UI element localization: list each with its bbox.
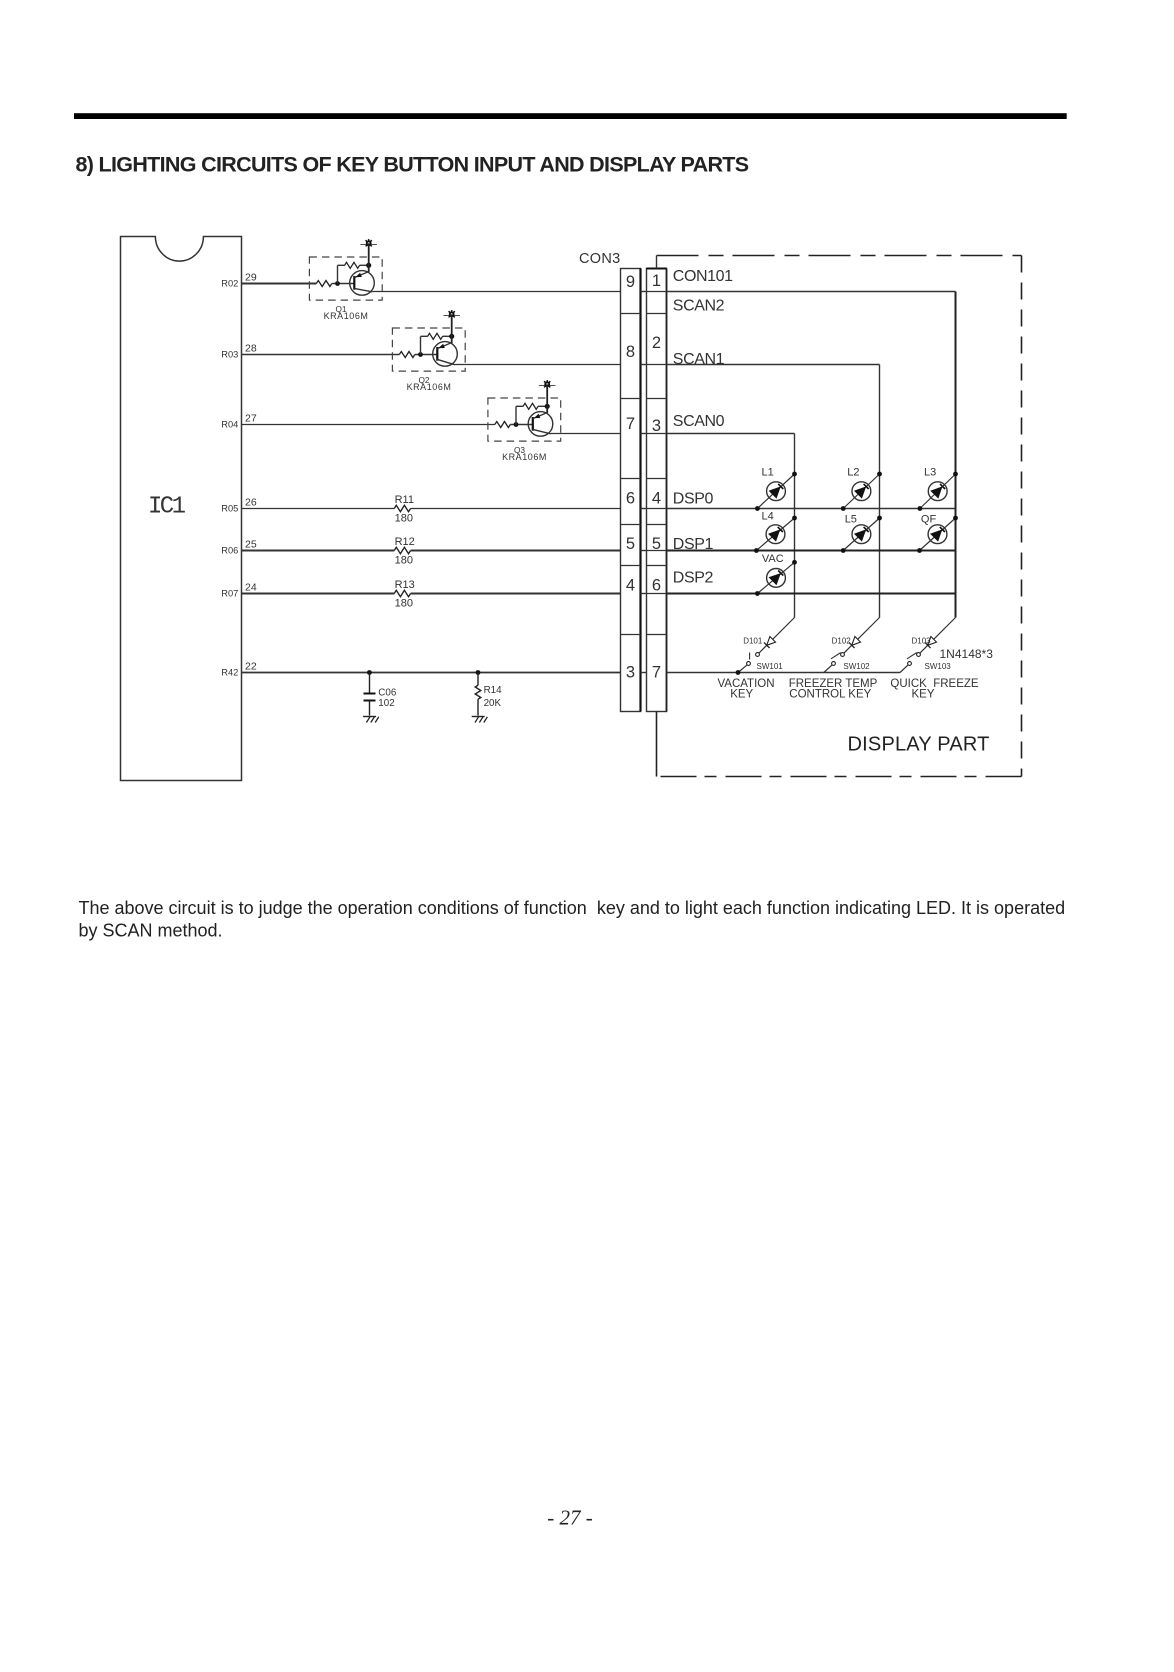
svg-text:R07: R07 (221, 589, 238, 599)
svg-text:SCAN1: SCAN1 (673, 351, 725, 368)
label SW101 (757, 662, 784, 671)
svg-text:R11: R11 (395, 494, 414, 506)
wire power to emitter (Q3) (546, 384, 548, 413)
label D102 (832, 637, 852, 646)
svg-text:6: 6 (626, 490, 635, 508)
page number (547, 1506, 593, 1530)
pin number 22 (245, 661, 257, 673)
display part border top (657, 255, 1022, 257)
svg-text:27: 27 (245, 413, 257, 425)
svg-text:CONTROL KEY: CONTROL KEY (789, 689, 871, 701)
pin number 25 (245, 539, 257, 551)
resistor R13 (394, 590, 410, 596)
label D101 (743, 637, 763, 646)
label 20K (R14) (484, 698, 502, 709)
svg-text:3: 3 (626, 664, 635, 682)
svg-text:R06: R06 (221, 546, 238, 556)
svg-text:SCAN2: SCAN2 (673, 298, 725, 315)
svg-text:DSP0: DSP0 (673, 491, 714, 508)
label L5 (845, 514, 857, 526)
net label SCAN0 (673, 413, 725, 430)
label VAC (762, 553, 784, 565)
wire SCAN2 vertical (v3) (955, 292, 957, 618)
wire base node (Q2) (415, 352, 438, 357)
wire SCAN2 horizontal (667, 291, 956, 293)
transistor Q1 (KRA106M) (350, 271, 375, 296)
wire key-scan row (pin7) (667, 672, 901, 674)
connector through-stubs (641, 292, 647, 673)
wire power to emitter (Q2) (451, 314, 453, 343)
display part border right (1021, 256, 1023, 777)
svg-text:KRA106M: KRA106M (407, 382, 452, 392)
top rule bar (74, 113, 1067, 119)
svg-text:R03: R03 (221, 350, 238, 360)
wire to power node (Q1) (360, 263, 372, 268)
svg-text:L2: L2 (847, 467, 859, 479)
svg-text:26: 26 (245, 497, 257, 509)
transistor Q2 (KRA106M) (433, 342, 458, 367)
label C06 (378, 687, 397, 698)
IC pin label R05 (221, 504, 238, 514)
svg-text:KEY: KEY (730, 689, 753, 701)
transistor Q3 (KRA106M) (528, 412, 553, 437)
svg-text:R02: R02 (221, 279, 238, 289)
svg-text:R05: R05 (221, 504, 238, 514)
label L4 (762, 511, 774, 523)
pin number 29 (245, 272, 257, 284)
svg-text:L1: L1 (762, 467, 774, 479)
net label CON101 (673, 268, 733, 285)
svg-text:28: 28 (245, 343, 257, 355)
label Q1 (335, 304, 346, 314)
net label SCAN1 (673, 351, 725, 368)
label 180 (R12) (395, 554, 413, 566)
svg-text:L3: L3 (924, 467, 936, 479)
diode D101 + switch SW101 (736, 618, 795, 675)
svg-text:R42: R42 (221, 668, 238, 678)
label QUICK FREEZE KEY (890, 678, 979, 701)
wire Q2 collector to CON3 (455, 364, 620, 366)
svg-text:CON101: CON101 (673, 268, 733, 285)
svg-text:KRA106M: KRA106M (502, 452, 547, 462)
LED QF (917, 516, 958, 553)
wire R06 row (242, 550, 621, 552)
label R12 (395, 536, 415, 548)
wire R07 row (242, 593, 621, 595)
svg-text:7: 7 (652, 664, 661, 682)
label 102 (C06) (378, 698, 394, 709)
display part border left (upper) (656, 256, 658, 269)
svg-text:25: 25 (245, 539, 257, 551)
page title (76, 153, 749, 177)
svg-text:180: 180 (395, 554, 413, 566)
svg-text:CON3: CON3 (579, 251, 621, 267)
svg-text:DISPLAY PART: DISPLAY PART (848, 734, 990, 756)
label 180 (R13) (395, 597, 413, 609)
svg-text:D103: D103 (912, 637, 932, 646)
pin number 28 (245, 343, 257, 355)
svg-text:D101: D101 (743, 637, 763, 646)
IC pin label R03 (221, 350, 238, 360)
svg-text:6: 6 (652, 577, 661, 595)
net label SCAN2 (673, 298, 725, 315)
label KRA106M (Q1) (324, 311, 369, 321)
resistor R12 (394, 547, 410, 553)
wire R42 row (242, 672, 621, 674)
wire SCAN1 horizontal (667, 364, 880, 366)
svg-text:QF: QF (921, 514, 937, 526)
wire power to emitter (Q1) (368, 243, 370, 272)
base-emitter resistor (Q3) (523, 403, 538, 409)
svg-text:2: 2 (652, 334, 661, 352)
ground (R14) (472, 717, 488, 723)
LED L5 (841, 516, 882, 553)
svg-text:8) LIGHTING CIRCUITS OF KEY BU: 8) LIGHTING CIRCUITS OF KEY BUTTON INPUT… (76, 153, 749, 177)
IC pin label R07 (221, 589, 238, 599)
wire R05 row (242, 508, 621, 510)
label L2 (847, 467, 859, 479)
node C06 junction (367, 670, 372, 675)
svg-text:The above circuit is to judge: The above circuit is to judge the operat… (79, 898, 1066, 918)
label L3 (924, 467, 936, 479)
svg-text:L5: L5 (845, 514, 857, 526)
svg-text:by SCAN method.: by SCAN method. (79, 920, 223, 940)
svg-text:SW102: SW102 (843, 662, 870, 671)
base input resistor (Q2) (399, 352, 415, 358)
label KRA106M (Q2) (407, 382, 452, 392)
svg-text:C06: C06 (378, 687, 397, 698)
base-emitter resistor (Q2) (428, 333, 443, 339)
svg-text:SW101: SW101 (757, 662, 784, 671)
capacitor C06 (364, 673, 376, 716)
wire SCAN1 vertical (v2) (879, 365, 881, 618)
svg-text:L4: L4 (762, 511, 774, 523)
connector CON3 left column (621, 269, 641, 712)
net label DSP1 (673, 536, 714, 553)
LED L2 (841, 472, 882, 511)
power rail tap (Q2) (443, 310, 460, 317)
label SW103 (925, 662, 952, 671)
label CON3 (579, 251, 621, 267)
LED L1 (755, 472, 797, 511)
svg-text:20K: 20K (484, 698, 502, 709)
net label DSP0 (673, 491, 714, 508)
resistor R11 (394, 505, 410, 511)
label R14 (484, 685, 503, 696)
svg-text:D102: D102 (832, 637, 852, 646)
svg-text:180: 180 (395, 597, 413, 609)
svg-text:8: 8 (626, 343, 635, 361)
body paragraph (79, 898, 1066, 940)
wire R02 IC to Q2 (242, 354, 400, 356)
label Q3 (514, 445, 525, 455)
label D103 (912, 637, 932, 646)
label R11 (395, 494, 414, 506)
IC pin label R02 (221, 279, 238, 289)
CON3 cell dividers (621, 314, 641, 635)
svg-text:5: 5 (652, 535, 661, 553)
IC1 label (148, 494, 186, 521)
wire to power node (Q3) (538, 404, 550, 409)
label QF (921, 514, 937, 526)
dashed package outline Q3 (488, 398, 561, 441)
svg-text:7: 7 (626, 415, 635, 433)
label SW102 (843, 662, 870, 671)
svg-text:KEY: KEY (911, 689, 934, 701)
wire base node (Q3) (510, 422, 533, 427)
resistor R14 (475, 673, 481, 716)
svg-text:1N4148*3: 1N4148*3 (940, 647, 994, 661)
dashed package outline Q1 (309, 257, 382, 300)
label 1N4148*3 (940, 647, 994, 661)
svg-text:R13: R13 (395, 579, 415, 591)
base-emitter resistor (Q1) (345, 262, 360, 268)
diode D103 + switch SW103 (900, 618, 956, 673)
svg-text:SW103: SW103 (925, 662, 952, 671)
LED VAC (755, 560, 797, 596)
display part border bottom (657, 776, 1022, 778)
display part border left (lower) (656, 712, 658, 777)
label R13 (395, 579, 415, 591)
base input resistor (Q1) (316, 281, 332, 287)
svg-text:SCAN0: SCAN0 (673, 413, 725, 430)
svg-text:DSP2: DSP2 (673, 570, 714, 587)
wire DSP0 row (667, 508, 956, 510)
label VACATION KEY (717, 678, 774, 701)
label 180 (R11) (395, 512, 413, 524)
wire R01 IC to Q1 (242, 283, 317, 285)
CON3 pin numbers (626, 273, 635, 682)
IC IC1 outline (121, 237, 242, 781)
svg-text:QUICK FREEZE: QUICK FREEZE (890, 678, 979, 690)
svg-text:29: 29 (245, 272, 257, 284)
wire R03 IC to Q3 (242, 424, 495, 426)
power rail tap (Q3) (539, 380, 556, 387)
IC pin label R42 (221, 668, 238, 678)
CON101 cell dividers (647, 292, 667, 635)
wire base node up (Q3) (516, 406, 523, 424)
label DISPLAY PART (848, 734, 990, 756)
svg-text:180: 180 (395, 512, 413, 524)
connector CON101 column (646, 269, 666, 712)
svg-text:IC1: IC1 (148, 494, 186, 521)
svg-text:4: 4 (652, 490, 661, 508)
wire Q1 collector to CON3 (372, 291, 620, 293)
CON101 pin numbers (652, 272, 661, 682)
wire to power node (Q2) (443, 334, 455, 339)
wire Q3 collector to CON3 (551, 433, 621, 435)
wire SCAN0 horizontal (667, 433, 795, 435)
wire DSP1 row (667, 550, 956, 552)
svg-text:24: 24 (245, 582, 257, 594)
dashed package outline Q2 (392, 328, 465, 371)
pin number 24 (245, 582, 257, 594)
diode D102 + switch SW102 (824, 618, 880, 673)
ground (C06) (363, 717, 379, 723)
base input resistor (Q3) (495, 422, 511, 428)
pin number 27 (245, 413, 257, 425)
LED L4 (754, 516, 797, 553)
IC pin label R06 (221, 546, 238, 556)
power rail tap (Q1) (360, 239, 377, 246)
wire SCAN0 vertical (v1) (794, 434, 796, 618)
svg-text:102: 102 (378, 698, 394, 709)
svg-text:5: 5 (626, 535, 635, 553)
wire DSP2 row (667, 593, 956, 595)
svg-text:22: 22 (245, 661, 257, 673)
LED L3 (918, 472, 958, 511)
label Q2 (418, 375, 429, 385)
svg-text:KRA106M: KRA106M (324, 311, 369, 321)
pin number 26 (245, 497, 257, 509)
svg-text:R12: R12 (395, 536, 415, 548)
label FREEZER TEMP CONTROL KEY (789, 678, 878, 701)
wire base node (Q1) (332, 281, 355, 286)
IC pin label R04 (221, 420, 238, 430)
label KRA106M (Q3) (502, 452, 547, 462)
node R14 junction (476, 670, 481, 675)
svg-text:VAC: VAC (762, 553, 784, 565)
svg-text:1: 1 (652, 272, 661, 290)
svg-text:- 27 -: - 27 - (547, 1506, 593, 1530)
wire base node up (Q1) (338, 265, 345, 283)
svg-text:4: 4 (626, 577, 635, 595)
label L1 (762, 467, 774, 479)
net label DSP2 (673, 570, 714, 587)
svg-text:R14: R14 (484, 685, 503, 696)
svg-text:R04: R04 (221, 420, 238, 430)
svg-text:9: 9 (626, 273, 635, 291)
wire base node up (Q2) (421, 336, 428, 354)
svg-text:3: 3 (652, 417, 661, 435)
